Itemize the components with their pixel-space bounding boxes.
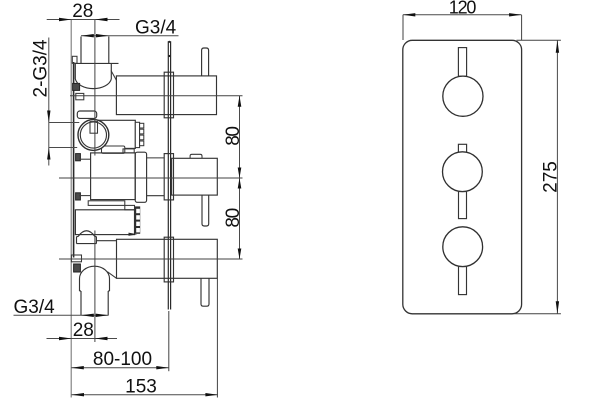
thermo threaded end strip [135,122,139,147]
plate square upper [76,93,84,99]
bottom valve block [117,239,218,278]
svg-text:28: 28 [72,1,93,22]
dimension 80 lower (rotated) [223,178,244,259]
neck lines middle [147,158,165,196]
dimension 80-100 [71,349,169,370]
bottom elbow crown [80,266,110,291]
thermo thread squares [140,123,144,145]
dimension 28 top [47,1,120,22]
thermo cartridge cap [77,111,96,118]
knob 3 circle [443,227,483,267]
label G3/4 top [81,18,179,39]
plate screw upper [73,83,80,90]
plate bolt mid-upper [76,154,81,161]
knob 2 tab [458,144,466,152]
middle cartridge box [91,153,136,200]
bottom stem lever [201,278,209,306]
thermo outlet stub [102,146,125,153]
long fixing rod [168,41,170,309]
middle valve body [172,158,218,195]
lower threaded end strip [135,206,140,233]
svg-text:80: 80 [223,127,244,146]
dimension 153 [72,377,218,398]
rod washer top [164,72,173,118]
middle cartridge top tab [123,149,134,153]
bottom outlet pipe [81,291,108,315]
knob 2 circle [443,152,483,192]
centerline bottom pipe [94,231,96,343]
label 2-G3/4 (rotated) [31,38,80,166]
plate bolt mid-lower [76,193,81,200]
label G3/4 bottom [14,297,109,318]
svg-text:153: 153 [125,377,157,398]
centerline middle knob [59,177,243,179]
check valve dome [77,231,97,244]
middle stem lever [202,195,209,226]
svg-text:28: 28 [73,320,94,341]
middle cartridge cap [135,152,146,202]
ext line body right [216,279,218,398]
knob 3 stem [459,267,467,295]
middle cartridge step [125,205,135,209]
wall plate edge line (left, full height) [70,20,72,398]
bottom block left neck [97,241,117,279]
face plate [403,40,522,314]
plate clip top [72,56,77,63]
middle cartridge bottom band [88,201,125,206]
lower thread squares [136,209,140,233]
plate-to-box connector upper [79,158,90,160]
centerline top pipe [94,20,96,156]
svg-text:120: 120 [449,0,477,17]
dimension 120 [403,0,522,40]
middle body top tab [190,154,202,158]
flow arrow marker [129,233,138,236]
lower cartridge [75,210,134,235]
knob 2 stem [459,192,467,219]
dimension 275 [515,40,562,314]
centerline bottom knob [59,258,243,260]
wall plate body line (dark) [73,62,75,258]
dimension 28 bottom [47,320,118,341]
rod washer middle [164,154,173,200]
inlet key slot [90,122,98,134]
knob 1 circle [443,76,483,116]
rod washer bottom [164,237,173,282]
rod tick upper [168,41,170,43]
top stem stub [202,48,209,76]
centerline top knob [70,95,243,97]
plate screw bottom [74,264,81,272]
dimension 80 upper (rotated) [223,96,244,259]
nut-to-body chamfer [111,71,116,81]
side inlet outer circle [78,120,109,151]
svg-text:80-100: 80-100 [93,349,152,370]
plate-to-box connector lower [79,195,90,197]
rod tick lower [168,55,170,57]
top pipe nut with dome [75,63,118,88]
ext line rod end [168,311,170,371]
svg-text:275: 275 [540,161,561,193]
knob 1 stem [458,48,466,77]
svg-text:80: 80 [223,208,244,227]
plate clip bottom [71,255,81,262]
svg-text:G3/4: G3/4 [14,297,56,318]
side inlet inner circle [80,122,106,148]
top inlet pipe [81,37,109,64]
thermo cartridge housing [96,120,135,148]
top valve body [116,76,216,115]
